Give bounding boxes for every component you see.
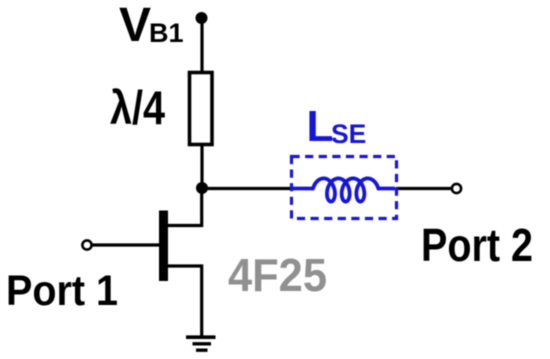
svg-text:SE: SE — [331, 119, 366, 149]
svg-text:Port 1: Port 1 — [6, 267, 118, 315]
svg-text:4F25: 4F25 — [228, 249, 327, 301]
svg-text:B1: B1 — [149, 18, 184, 48]
svg-text:Port 2: Port 2 — [421, 219, 533, 271]
svg-text:V: V — [119, 0, 151, 52]
svg-text:λ/4: λ/4 — [110, 81, 165, 134]
svg-text:L: L — [307, 102, 334, 151]
